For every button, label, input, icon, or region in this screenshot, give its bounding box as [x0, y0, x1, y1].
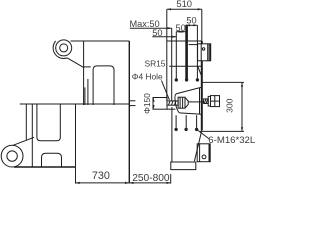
bolt dot row2 c: [195, 128, 198, 131]
upper lug slant line: [67, 58, 83, 68]
svg-text:Φ4 Hole: Φ4 Hole: [132, 71, 163, 81]
plate D thick bar: [185, 25, 188, 80]
svg-text:SR15: SR15: [145, 59, 166, 69]
bottom arch: [42, 153, 62, 167]
svg-text:250-800: 250-800: [132, 173, 170, 184]
top bracket dark edge: [207, 44, 209, 61]
side stub line lower: [129, 105, 135, 107]
lower body mid vertical: [75, 104, 77, 167]
leader 6-M16: [197, 129, 210, 139]
dimension 510: [167, 8, 202, 10]
center line: [188, 101, 203, 103]
foot pad dark edge: [208, 144, 210, 162]
svg-text:50: 50: [186, 16, 196, 26]
svg-text:300: 300: [224, 98, 234, 113]
right bolt washer: [208, 96, 210, 106]
extension line C: [175, 32, 177, 80]
right bolt shaft: [204, 99, 209, 104]
svg-text:730: 730: [92, 170, 110, 182]
screw rod rect: [167, 101, 178, 105]
bolt line F lower stub: [196, 115, 198, 129]
rod hatch: [169, 101, 177, 105]
right edge thick: [201, 41, 203, 44]
bracket stub line: [189, 44, 198, 46]
clamp plate rect: [153, 98, 167, 110]
jaw right edge: [199, 88, 201, 114]
foot box: [171, 162, 196, 170]
bolt dot row2 b: [184, 128, 187, 131]
dimension 50 second leader: [152, 36, 176, 38]
lower lug inner circle: [7, 151, 17, 161]
jaw top contour: [175, 87, 202, 97]
cone point: [185, 97, 188, 108]
dimension 50 third: [176, 31, 185, 33]
upper lug boss arc: [53, 41, 67, 58]
svg-text:Φ150: Φ150: [142, 93, 152, 114]
dimension 730: [76, 167, 130, 184]
bolt line D lower stub: [185, 115, 187, 129]
bolt dot row1 a: [175, 78, 178, 81]
column left edge: [171, 107, 173, 162]
dimension 300: [200, 82, 244, 131]
lower slot rounded: [37, 104, 60, 141]
rib horizontal: [169, 65, 202, 67]
svg-text:50: 50: [152, 28, 162, 38]
top bracket hole circle: [202, 48, 204, 50]
left body top edge: [71, 40, 130, 42]
foot pad rect: [197, 144, 210, 162]
dimension 50 fourth: [186, 24, 198, 26]
left body inner vertical: [83, 41, 85, 105]
lower lug outer circle: [1, 145, 23, 167]
dimension Max:50 leader: [130, 27, 172, 29]
lower body left vertical: [25, 104, 27, 140]
leader Phi4 hole: [162, 81, 170, 100]
upper lug inner circle: [60, 44, 68, 52]
foot pad hole circle: [202, 155, 206, 159]
base line: [14, 166, 76, 168]
bolt dot row1 c: [196, 78, 199, 81]
extension line A: [166, 9, 168, 100]
extension line B: [171, 28, 173, 101]
left body right edge: [128, 41, 130, 183]
bolt dot row2 a: [174, 128, 177, 131]
dimension 250-800: [129, 174, 170, 184]
left body inner vertical doubled: [84, 87, 86, 105]
upper lug outer circle: [56, 40, 72, 56]
right bolt head: [211, 96, 220, 107]
svg-text:6-M16*32L: 6-M16*32L: [208, 135, 255, 146]
upper rounded rect: [93, 66, 114, 105]
extension line F: [196, 25, 198, 79]
dimension phi150 arrows: [152, 98, 154, 110]
right contour slant: [194, 130, 201, 161]
rib diagonal: [197, 66, 201, 77]
lower lug slant line: [13, 137, 34, 145]
nut inner verticals: [180, 97, 183, 108]
lower body top line left: [20, 103, 130, 105]
right edge upper: [201, 9, 203, 41]
jaw left contour: [175, 98, 180, 113]
right body top edge: [167, 40, 202, 42]
svg-text:50: 50: [175, 23, 185, 33]
top bracket inner vertical: [200, 44, 202, 61]
top bracket rect: [198, 44, 211, 61]
bolt dot row1 b: [185, 78, 188, 81]
right bolt head inner: [211, 96, 220, 107]
bolt line C lower stub: [175, 115, 177, 129]
svg-text:510: 510: [176, 0, 192, 9]
side stub line upper: [129, 100, 135, 102]
nut rect: [178, 97, 185, 108]
jaw bottom edge: [179, 113, 201, 114]
